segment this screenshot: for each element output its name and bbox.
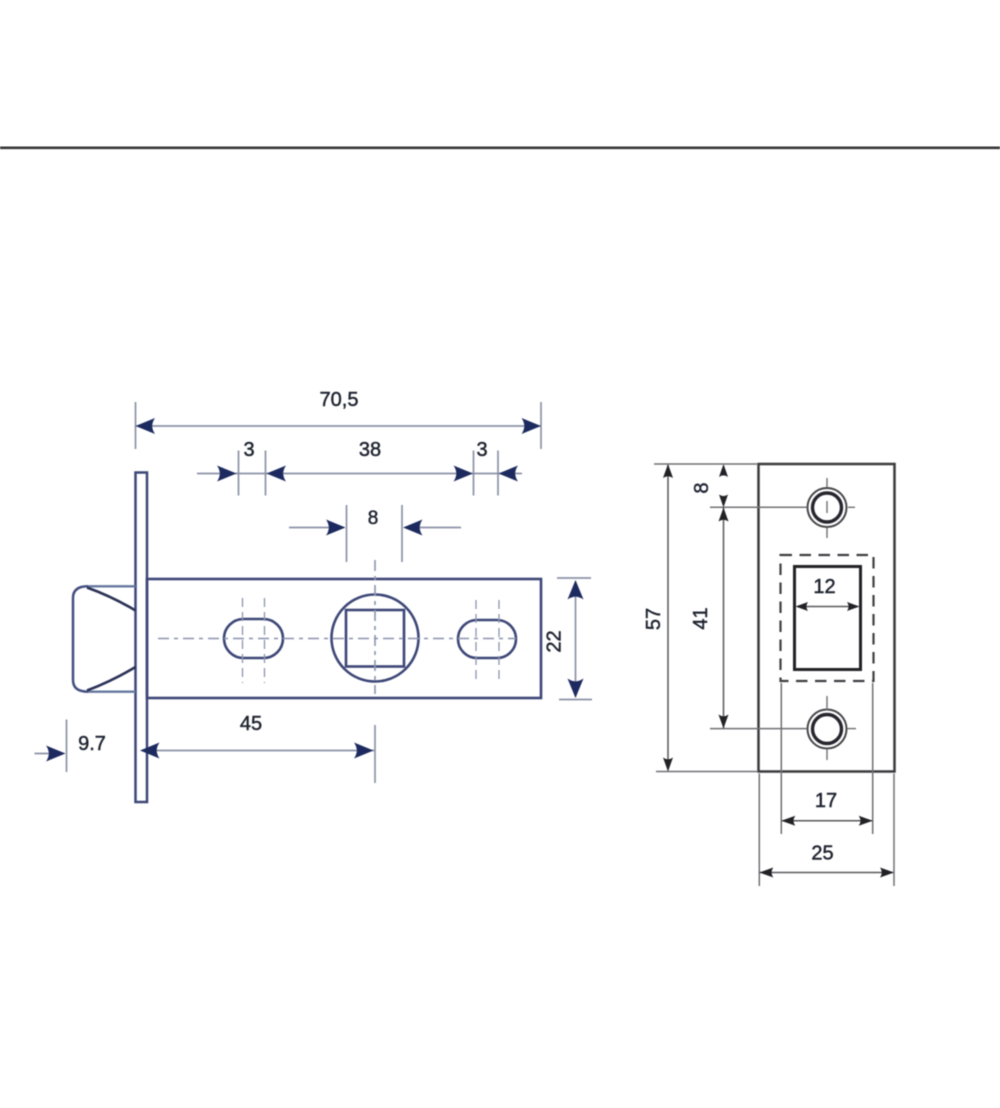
spindle square hole [346,610,404,667]
svg-text:25: 25 [811,843,833,865]
centerline left slot b [264,598,266,683]
svg-text:22: 22 [544,630,566,652]
plate outline [759,464,895,772]
ext plate top [654,463,757,465]
centerline vertical main [374,560,376,694]
ext 25 right [893,774,895,887]
dim 25 [760,872,893,874]
svg-text:41: 41 [690,607,712,629]
dim 3-38-3 lines [197,451,522,496]
svg-text:8: 8 [691,482,713,493]
bottom screw hole outer [808,710,847,749]
bottom screw hole inner [813,715,842,744]
dim 41 [723,508,725,729]
ext top hole center [710,506,807,508]
dim 22 arrows [568,580,584,600]
right slot hole [458,620,516,658]
svg-text:45: 45 [240,713,262,735]
svg-text:57: 57 [643,608,665,630]
latch bolt [88,585,136,587]
svg-text:9.7: 9.7 [78,733,106,755]
svg-text:70,5: 70,5 [320,389,359,411]
centerline left slot a [242,598,244,683]
frame right line [0,0,1,1]
latch opening rectangle [795,567,861,670]
ext 17 left [780,683,782,834]
dim 22 lines [557,578,592,700]
ext plate bottom [656,771,758,773]
dim 9.7 lines [35,720,67,773]
ext 17 right [872,683,874,834]
bolt bevel top [87,588,136,611]
svg-text:3: 3 [476,439,487,461]
left slot hole [224,619,283,658]
latch dashed rectangle [781,555,874,681]
top screw hole outer [808,488,847,527]
svg-text:3: 3 [243,439,254,461]
centerline right slot b [498,600,500,682]
svg-text:8: 8 [368,508,379,529]
dim 8 lines [289,505,461,562]
dim 17 [782,820,872,822]
dim 57 [667,465,669,770]
extension lines right drawing [654,464,894,886]
hole center marks [827,478,856,760]
svg-text:17: 17 [815,790,837,812]
centerline right slot a [475,600,477,682]
latch body [147,579,541,698]
frame top line [0,147,1000,150]
svg-text:38: 38 [359,439,381,461]
dim 3-38-3 arrows [217,466,237,482]
dim 9.7 arrow [46,746,66,762]
bolt bevel bottom [87,667,136,691]
dim 45 arrows [140,743,160,759]
ext 25 left [758,774,760,887]
spindle circle [332,595,419,682]
dim 45 lines [146,725,375,783]
centerline horizontal [158,638,516,640]
dim 8 right [719,464,728,477]
dim 70,5 line [136,402,542,449]
dim 70,5 arrows [136,418,156,434]
dim 8 arrows [326,520,346,536]
top screw hole inner [813,493,842,522]
dim 12 [797,606,858,608]
svg-text:12: 12 [813,576,835,598]
ext bottom hole center [710,728,807,730]
faceplate [136,473,148,803]
